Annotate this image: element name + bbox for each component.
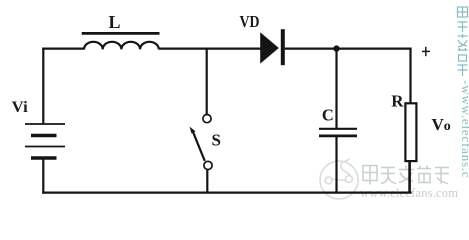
svg-text:S: S: [212, 130, 221, 149]
switch upper contact circle: [203, 115, 211, 123]
node junction dot: [333, 45, 339, 51]
svg-text:L: L: [109, 12, 121, 32]
wire: bottom rail: [42, 192, 411, 194]
logo watermark circle: [320, 159, 358, 200]
wire: top segment middle (inductor to diode): [159, 47, 261, 49]
wire: resistor lower lead: [408, 161, 411, 193]
diode VD triangle: [260, 32, 279, 63]
wire: left vertical (top corner to battery top): [42, 48, 44, 124]
capacitor C top plate: [319, 128, 357, 130]
switch S blade: [192, 130, 205, 161]
watermark text 电子发烧友 (bottom): [363, 166, 449, 185]
svg-text:R: R: [391, 92, 404, 111]
switch blade arrow tip: [190, 127, 196, 134]
switch lower contact circle: [204, 161, 212, 169]
diode VD cathode bar: [281, 29, 285, 65]
wire: battery bottom lead: [42, 158, 44, 194]
battery Vi plates: [25, 124, 65, 158]
wire: switch lower lead: [206, 170, 208, 194]
inductor L core bar: [82, 32, 160, 35]
wire: capacitor upper lead: [335, 49, 337, 129]
svg-text:-www.elecfans.c: -www.elecfans.c: [459, 80, 469, 179]
wire: right vertical upper (corner to resistor): [409, 48, 411, 104]
svg-text:C: C: [322, 106, 334, 125]
svg-text:VD: VD: [240, 12, 260, 31]
capacitor C bottom plate: [319, 134, 357, 137]
label +: [422, 50, 430, 52]
wire: capacitor lower lead: [335, 136, 337, 193]
wire: switch upper lead: [206, 49, 208, 115]
watermark vertical strip 电子发烧友 (right edge): [458, 7, 468, 76]
wire: top segment left (source to inductor): [42, 47, 84, 49]
wire: top segment right (diode to right corner): [285, 47, 412, 49]
resistor R body: [405, 103, 416, 161]
inductor L coil: [84, 42, 159, 50]
svg-text:Vi: Vi: [12, 99, 29, 116]
